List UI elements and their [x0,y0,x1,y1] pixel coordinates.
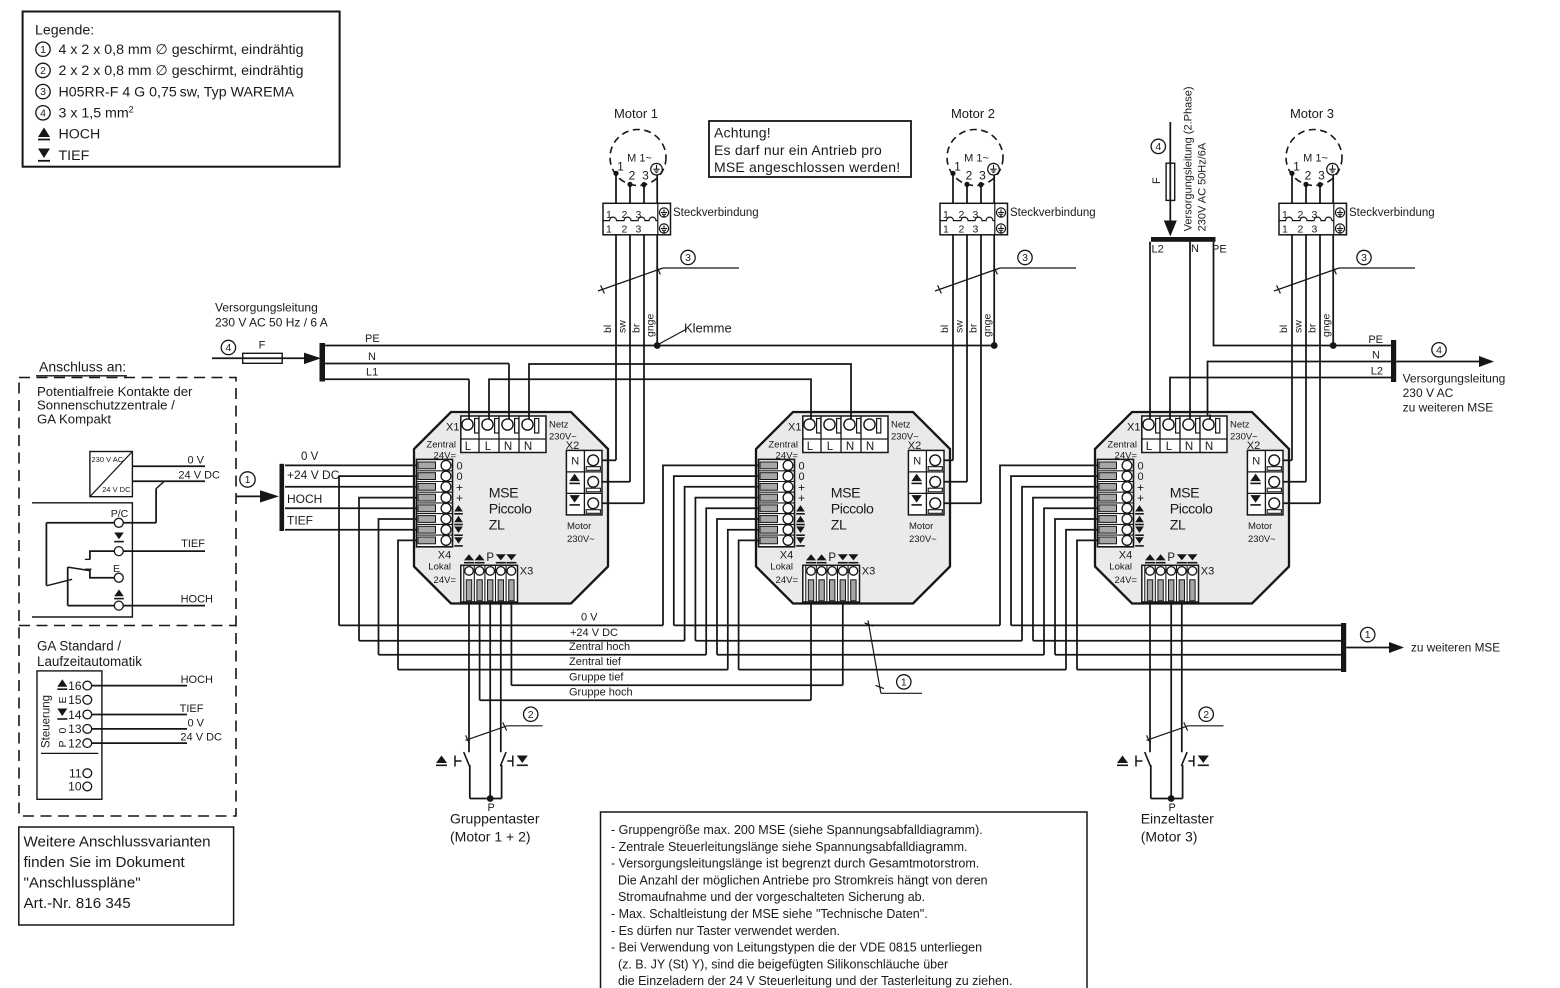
svg-text:Netz: Netz [549,420,569,431]
svg-text:Gruppentaster: Gruppentaster [450,811,540,827]
svg-text:Zentral: Zentral [1107,440,1137,451]
svg-text:3: 3 [40,86,46,98]
callout 3 cable M3 [1274,250,1415,293]
label Versorgungsleitung 2.Phase [1183,86,1209,231]
labels PE N L2 right [1368,334,1383,378]
svg-text:sw: sw [617,320,629,333]
contact E [114,573,123,582]
svg-text:- Gruppengröße max. 200 MSE (s: - Gruppengröße max. 200 MSE (siehe Spann… [611,823,983,837]
svg-text:Steckverbindung: Steckverbindung [673,207,759,219]
svg-text:GA Kompakt: GA Kompakt [37,411,111,426]
terminal X4 U1 [417,459,453,546]
svg-text:TIEF: TIEF [180,703,204,715]
svg-text:0 V: 0 V [187,718,204,730]
pushbutton Einzeltaster down [1181,752,1208,799]
motor M2 earth pin [988,163,1000,175]
contact TIEF wire [85,538,205,559]
svg-text:Achtung!: Achtung! [714,125,771,141]
svg-text:24 V DC: 24 V DC [178,470,220,482]
svg-text:N: N [571,456,579,468]
svg-text:3: 3 [636,224,642,236]
svg-text:24V=: 24V= [1115,575,1138,586]
wire N bus [325,351,509,364]
arrow into L2 bar [1164,221,1177,237]
dashed enclosure GA sections [19,378,236,817]
wire U2 X3.4 to Gruppe tief [842,604,844,686]
wire L1 bus [325,367,469,380]
junction M3 gnge PE [1330,342,1337,349]
svg-text:N: N [1372,350,1380,362]
svg-text:0 V: 0 V [187,455,204,467]
svg-text:Weitere Anschlussvarianten: Weitere Anschlussvarianten [24,834,211,851]
svg-text:Zentral: Zentral [768,440,798,451]
wire M2 gnge [993,175,995,346]
GA pin 16 [68,679,92,693]
terminal X2 U1 [566,450,602,515]
wire M2 bl to X2 N [944,459,953,461]
wire N right bus [1208,362,1392,425]
svg-text:H05RR-F 4 G 0,75 sw, Typ WAREM: H05RR-F 4 G 0,75 sw, Typ WAREMA [59,84,295,100]
svg-text:230V AC 50Hz/6A: 230V AC 50Hz/6A [1197,142,1209,231]
wire M2 sw [966,184,968,481]
svg-text:230 V AC: 230 V AC [92,455,124,464]
svg-text:L: L [1146,441,1153,453]
svg-text:15: 15 [68,693,82,707]
terminal X3 U2 [803,565,860,602]
svg-text:Klemme: Klemme [684,321,732,336]
switch lever 1 [68,567,90,571]
contact TIEF [114,547,123,556]
label Netz 230V U3 [1230,420,1258,443]
svg-text:Motor: Motor [1248,521,1272,532]
terminal X1 U2 [803,415,888,454]
MSE unit U3 body [1095,412,1289,604]
MSE unit U1 body [414,412,608,604]
svg-text:230V~: 230V~ [567,534,595,545]
terminal X4 U3 [1098,459,1134,546]
GA pin 13 [68,722,92,736]
wire U3 X4.5 to bus [1044,508,1098,655]
svg-text:Lokal: Lokal [1109,562,1132,573]
wire HOCH feed to X4 [285,507,417,509]
svg-text:3: 3 [1022,252,1028,264]
svg-text:X1: X1 [788,422,801,434]
svg-text:230 V AC: 230 V AC [1403,386,1454,400]
wire U1 X4.4 to 24V bus [359,498,417,641]
wire Gruppentaster common P [470,795,502,814]
wire M1 sw [629,184,631,481]
warning box Achtung [709,121,911,177]
label Motor 230V U1 [567,521,595,545]
svg-text:Zentral hoch: Zentral hoch [569,641,630,653]
svg-text:N: N [866,441,874,453]
svg-text:- Max. Schaltleistung der MSE: - Max. Schaltleistung der MSE siehe "Tec… [611,907,928,921]
wire Gruppe hoch [480,699,811,701]
svg-text:1: 1 [245,474,251,486]
svg-text:M 1~: M 1~ [1303,153,1328,165]
svg-text:1: 1 [606,224,612,236]
contact P/C [114,518,123,527]
svg-text:4: 4 [40,107,46,119]
svg-text:0 V: 0 V [581,612,598,624]
wire Einzeltaster common P [1151,795,1183,814]
label Motor 230V U2 [909,521,937,545]
fuse F right [1151,163,1175,200]
motor M3 earth pin [1327,163,1339,175]
svg-text:24 V DC: 24 V DC [102,485,131,494]
motor M2 pin 2 [964,169,972,187]
wire U1 X3.1 to Gruppentaster up [468,604,470,753]
busbar left [320,343,326,382]
wire U2 X4.6 to bus [717,519,759,655]
symbol HOCH [114,590,124,599]
switch lever 2 [46,579,72,586]
wire L chain U1-U2 [489,379,811,424]
svg-text:N: N [1185,441,1193,453]
svg-text:Zentral tief: Zentral tief [569,656,622,668]
wire M1 br to X2 down [602,502,644,504]
fuse F left [243,340,283,364]
svg-text:zu weiteren MSE: zu weiteren MSE [1411,641,1500,655]
svg-text:3: 3 [636,209,642,221]
svg-text:+24 V DC: +24 V DC [287,468,340,482]
svg-text:3: 3 [685,252,691,264]
svg-text:X2: X2 [908,440,921,452]
svg-text:MSE: MSE [1170,486,1199,502]
motor M1 pin 2 [627,169,635,187]
wire U3 X4.2 to bus [1011,476,1098,625]
contact HOCH wire [123,594,213,606]
wire U2 X4.1 to bus [663,465,759,625]
svg-text:Anschluss an:: Anschluss an: [39,359,126,375]
svg-text:"Anschlusspläne": "Anschlusspläne" [24,875,141,892]
wire L2 to U3 [1149,242,1151,424]
svg-text:gnge: gnge [982,313,994,337]
connector Steckverbindung M1 [603,203,671,235]
wire TIEF feed to X4 [285,529,417,531]
wire U1 X4.2 to 0V bus [339,476,417,625]
svg-text:X3: X3 [1201,566,1214,578]
svg-text:3: 3 [979,169,986,183]
wire PE bus [325,333,994,346]
svg-text:3: 3 [1312,224,1318,236]
svg-text:Versorgungsleitung: Versorgungsleitung [1403,372,1506,386]
svg-text:2: 2 [528,709,534,721]
labels X4 rows U3 [1135,460,1144,546]
GA pin 11 [69,767,92,781]
svg-text:N: N [1252,456,1260,468]
svg-text:+24 V DC: +24 V DC [570,627,618,639]
svg-text:1: 1 [606,209,612,221]
svg-text:- Es dürfen nur Taster verwend: - Es dürfen nur Taster verwendet werden. [611,924,840,938]
svg-text:Einzeltaster: Einzeltaster [1141,811,1214,827]
label Zentral 24V U3 [1107,440,1137,462]
terminal X2 U2 [908,450,944,515]
svg-text:- Bei Verwendung von Leitungst: - Bei Verwendung von Leitungstypen die d… [611,941,982,955]
wire M2 br [980,185,982,504]
pushbutton Einzeltaster up [1117,752,1151,799]
label MSE Piccolo ZL U1 [489,486,532,534]
svg-text:MSE: MSE [489,486,518,502]
svg-text:TIEF: TIEF [287,514,313,528]
labels bl sw br gnge M3 [1278,313,1333,337]
motor M2 pin 1 [950,160,961,176]
svg-text:P: P [828,552,836,564]
svg-text:X1: X1 [1127,422,1140,434]
connector Steckverbindung M3 [1279,203,1347,235]
wire N to U3 [1189,242,1191,424]
svg-text:1: 1 [1365,629,1371,641]
wire U1 X3.5 to Gruppe tief [510,604,512,686]
wire Zentral tief segments [398,669,1343,671]
label Netz 230V U1 [549,420,577,443]
wire U3 X4.4 to bus [1033,498,1098,641]
svg-text:Versorgungsleitung: Versorgungsleitung [215,301,318,315]
svg-text:ZL: ZL [1170,518,1186,534]
svg-text:L2: L2 [1371,366,1383,378]
busbar L2 supply [1151,237,1216,242]
svg-text:X1: X1 [446,422,459,434]
wire U2 X4.8 to bus [739,540,759,669]
svg-text:Legende:: Legende: [35,23,94,39]
svg-text:24 V DC: 24 V DC [180,732,222,744]
svg-text:3: 3 [973,224,979,236]
motor M2 [947,106,1003,186]
svg-text:X4: X4 [438,550,451,562]
note box bottom [601,812,1088,988]
svg-text:Es darf nur ein Antrieb pro: Es darf nur ein Antrieb pro [714,142,882,158]
wire 0V bus segments [339,624,1343,626]
labels bl sw br gnge M1 [602,313,657,337]
wire pin16 HOCH [92,674,213,686]
label MSE Piccolo ZL U2 [831,486,874,534]
svg-text:F: F [259,340,266,352]
symbol TIEF [114,533,124,542]
wire U2 X4.5 to bus [706,508,758,655]
svg-text:+: + [798,491,805,505]
svg-text:X2: X2 [1247,440,1260,452]
svg-text:2: 2 [40,65,46,77]
svg-text:gnge: gnge [645,313,657,337]
switch common wire [46,523,114,586]
svg-text:X4: X4 [780,550,793,562]
svg-text:gnge: gnge [1321,313,1333,337]
svg-text:Laufzeitautomatik: Laufzeitautomatik [37,654,142,669]
svg-text:3: 3 [1361,252,1367,264]
svg-text:2 x 2 x 0,8 mm ∅ geschirmt, ei: 2 x 2 x 0,8 mm ∅ geschirmt, eindrähtig [59,63,304,79]
wire U1 X3.3 P [489,604,491,799]
wire M2 br to X2 down [944,502,981,504]
svg-text:Motor 1: Motor 1 [614,106,658,121]
label Zentral 24V U2 [768,440,798,462]
svg-text:1: 1 [617,160,624,174]
svg-text:HOCH: HOCH [59,127,101,143]
svg-text:sw: sw [954,320,966,333]
callout 2 cable Einzeltaster [1147,707,1224,744]
svg-text:sw: sw [1293,320,1305,333]
wire U1 X3.2 to Gruppe hoch [479,604,481,701]
svg-text:X4: X4 [1119,550,1132,562]
svg-text:11: 11 [69,767,82,781]
svg-text:- Versorgungsleitungslänge ist: - Versorgungsleitungslänge ist begrenzt … [611,857,979,871]
terminal X2 U3 [1247,450,1283,515]
svg-text:P: P [1167,552,1175,564]
svg-text:1: 1 [901,677,907,689]
motor M3 [1286,106,1342,186]
motor M1 [610,106,666,186]
svg-text:MSE: MSE [831,486,860,502]
svg-text:Gruppe tief: Gruppe tief [569,672,624,684]
svg-text:3: 3 [1318,169,1325,183]
labels X3 cols U1 [464,552,516,564]
wire L1 drop to U1 [468,379,470,424]
svg-text:N: N [1191,243,1199,255]
wire U3 X4.6 to bus [1055,519,1098,655]
svg-text:4: 4 [225,342,231,354]
svg-text:MSE angeschlossen werden!: MSE angeschlossen werden! [714,159,900,175]
svg-text:N: N [1205,441,1213,453]
wire +24V feed to X4 [285,486,417,488]
svg-text:3 x 1,5 mm2: 3 x 1,5 mm2 [59,105,134,122]
label Zentral 24V U1 [426,440,456,462]
svg-text:3: 3 [973,209,979,221]
svg-text:1: 1 [40,44,46,56]
wire U3 X3.1 to Einzeltaster up [1149,604,1151,753]
svg-text:14: 14 [68,708,82,722]
wire U2 X3.1 to Gruppe hoch [810,604,812,701]
svg-text:1: 1 [1293,160,1300,174]
busbar central right end [1341,623,1346,672]
wire M1 bl to X2 N [602,459,616,461]
wire N drop to U1 [508,364,510,425]
svg-text:2: 2 [959,224,965,236]
wire U3 X3.4 to Einzeltaster down [1181,604,1183,753]
svg-text:(Motor 3): (Motor 3) [1141,829,1198,845]
svg-text:0 V: 0 V [301,451,319,463]
GA Standard terminal box [37,671,102,799]
svg-text:Netz: Netz [891,420,911,431]
svg-text:N: N [504,441,512,453]
svg-text:bl: bl [602,325,614,333]
svg-text:Gruppe hoch: Gruppe hoch [569,687,633,699]
svg-text:2: 2 [966,169,973,183]
svg-text:1: 1 [954,160,961,174]
svg-text:Art.-Nr. 816 345: Art.-Nr. 816 345 [24,895,131,912]
wire 24V DC stub [123,470,220,523]
control feed busbar [280,464,285,531]
svg-text:X3: X3 [520,566,533,578]
GA pin 15 [68,693,92,707]
wire U2 X4.7 to bus [728,530,759,670]
svg-text:PE: PE [1368,334,1383,346]
busbar right end [1391,340,1396,382]
svg-text:Steuerung: Steuerung [41,695,53,748]
motor M3 pin 2 [1303,169,1311,187]
svg-text:Motor: Motor [567,521,591,532]
labels X3 cols U2 [806,552,858,564]
svg-text:2: 2 [1298,209,1304,221]
label Lokal 24V U1 [428,562,456,587]
svg-text:L: L [485,441,492,453]
terminal X3 U3 [1142,565,1199,602]
svg-text:N: N [913,456,921,468]
label Lokal 24V U2 [770,562,798,587]
connector Steckverbindung M2 [940,203,1008,235]
wire U3 X4.8 to bus [1077,540,1098,669]
svg-text:10: 10 [68,780,82,794]
svg-text:HOCH: HOCH [287,492,322,506]
arrow into bus [304,353,321,365]
wire +24V bus segments [359,640,1343,642]
svg-text:Piccolo: Piccolo [1170,502,1213,518]
wire M1 br [643,185,645,504]
GA pin 14 [68,708,92,722]
svg-text:TIEF: TIEF [59,148,90,164]
label Klemme [659,321,732,345]
svg-text:1: 1 [1282,209,1288,221]
svg-text:24V=: 24V= [776,575,799,586]
wire U3 X3.3 P [1170,604,1172,799]
svg-text:Zentral: Zentral [426,440,456,451]
wire L2 right bus [1170,378,1391,425]
svg-text:230 V AC 50 Hz / 6 A: 230 V AC 50 Hz / 6 A [215,316,328,330]
power supply unit 230V AC / 24V DC [90,452,132,497]
svg-text:br: br [968,323,980,333]
svg-text:16: 16 [68,679,82,693]
svg-text:2: 2 [629,169,636,183]
wire supply 2.Phase [1169,122,1171,221]
svg-text:4: 4 [1155,141,1161,153]
svg-text:1: 1 [1282,224,1288,236]
wire M3 br [1319,185,1321,504]
svg-text:L: L [1166,441,1173,453]
svg-text:N: N [368,351,376,363]
svg-text:br: br [631,323,643,333]
svg-text:0: 0 [57,728,69,734]
labels X4 rows U1 [454,460,463,546]
label Netz 230V U2 [891,420,919,443]
terminal X4 U2 [759,459,795,546]
pushbutton Gruppentaster down [500,752,527,799]
svg-text:(Motor 1 + 2): (Motor 1 + 2) [450,829,531,845]
svg-text:X3: X3 [862,566,875,578]
svg-text:+: + [456,491,463,505]
note box Anschlussvarianten [19,827,234,925]
wire U1 X4.8 to Zentral tief [398,540,417,669]
arrow zu weiteren MSE right [1396,343,1494,367]
svg-text:Motor 2: Motor 2 [951,106,995,121]
svg-text:HOCH: HOCH [181,674,213,686]
callout 2 cable Gruppentaster [466,707,543,744]
svg-text:Steckverbindung: Steckverbindung [1010,207,1096,219]
svg-text:- Zentrale Steuerleitungslänge: - Zentrale Steuerleitungslänge siehe Spa… [611,840,967,854]
svg-text:P: P [57,740,69,747]
svg-text:X2: X2 [566,440,579,452]
wire M3 bl to X2 N [1283,459,1292,461]
labels bl sw br gnge M2 [939,313,994,337]
svg-text:M 1~: M 1~ [964,153,989,165]
svg-text:Motor 3: Motor 3 [1290,106,1334,121]
symbol pin14 TIEF [57,709,67,720]
wire U1 X3.4 to Gruppentaster down [500,604,502,753]
svg-text:Motor: Motor [909,521,933,532]
label Einzeltaster [1141,811,1214,845]
svg-text:L: L [827,441,834,453]
callout 1 cable near U2 [865,620,922,693]
wire U2 X4.3 to bus [685,487,759,641]
svg-text:3: 3 [642,169,649,183]
switch rail HOCH [68,567,115,606]
